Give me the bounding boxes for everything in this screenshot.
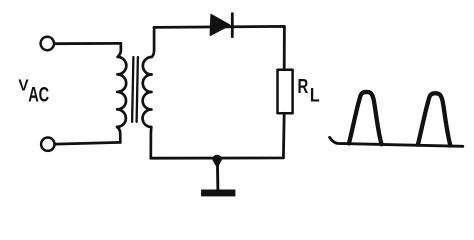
svg-text:L: L bbox=[310, 84, 320, 106]
svg-text:AC: AC bbox=[28, 84, 49, 107]
svg-text:R: R bbox=[298, 75, 309, 98]
